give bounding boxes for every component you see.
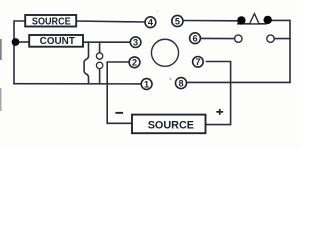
pin 8 bbox=[176, 78, 187, 89]
svg-text:4: 4 bbox=[148, 18, 154, 28]
switch S1 contact (bottom circle) bbox=[96, 62, 102, 68]
svg-text:2: 2 bbox=[132, 58, 137, 68]
wire: NC stationary contact to right rail bbox=[275, 38, 291, 40]
svg-text:6: 6 bbox=[192, 34, 197, 44]
wire: pin 6 to NO stationary contact bbox=[201, 37, 234, 39]
svg-text:8: 8 bbox=[178, 78, 183, 88]
wire: drop to switch top contact bbox=[99, 42, 101, 52]
pin 4 bbox=[145, 17, 156, 28]
socket outline (center circle) bbox=[151, 39, 178, 66]
wire: pin 5 to movable contact bbox=[184, 20, 238, 22]
scan noise speck bbox=[157, 11, 159, 13]
wire: pin 8 to right rail bbox=[187, 81, 290, 83]
wire: junction dot to COUNT box bbox=[16, 41, 30, 43]
pin 2 bbox=[129, 57, 140, 68]
scan noise speck bbox=[170, 78, 172, 80]
node: junction dot on left rail bbox=[12, 38, 20, 46]
wire: COUNT box to pin 3 bbox=[83, 41, 130, 43]
pin 7 bbox=[193, 57, 204, 68]
svg-text:5: 5 bbox=[175, 16, 180, 26]
switch S1 contact (top circle) bbox=[96, 53, 102, 59]
pin 1 bbox=[141, 79, 152, 90]
pin 5 bbox=[172, 15, 183, 26]
svg-text:3: 3 bbox=[133, 38, 138, 48]
scan artifact: left edge smudge upper bbox=[0, 39, 2, 60]
wire: contact bar (movable) bbox=[238, 23, 266, 25]
pin 6 bbox=[190, 33, 201, 44]
contact: stationary contact left (open circle) bbox=[235, 35, 242, 42]
source box (top) bbox=[25, 15, 76, 27]
wire: switch bottom contact to bottom rail bbox=[99, 69, 101, 84]
count box bbox=[29, 35, 83, 47]
wire: plus drop from source to pin 7 bbox=[206, 62, 231, 125]
svg-text:COUNT: COUNT bbox=[40, 36, 75, 47]
wire: right dot to right rail bbox=[272, 20, 290, 82]
wire: flexible jumper drop (S-jog) bbox=[84, 42, 88, 83]
contact: movable dot right bbox=[264, 16, 272, 24]
svg-text:SOURCE: SOURCE bbox=[148, 120, 194, 132]
polarity label: minus bbox=[115, 112, 123, 114]
svg-text:1: 1 bbox=[144, 79, 149, 89]
contact: stationary contact right (open circle) bbox=[267, 35, 274, 42]
scan artifact: left edge smudge lower bbox=[0, 88, 2, 111]
svg-text:SOURCE: SOURCE bbox=[32, 16, 71, 27]
wire: bottom rail to pin 1 bbox=[14, 83, 140, 85]
wire: left rail bbox=[14, 21, 25, 84]
svg-text:7: 7 bbox=[195, 57, 200, 67]
polarity label: plus bbox=[216, 109, 223, 115]
contact: actuator triangle bbox=[250, 14, 260, 24]
wire: pin 2 to minus drop bbox=[107, 62, 132, 123]
contact: movable dot left bbox=[237, 16, 245, 24]
wire: SOURCE box to pin 4 bbox=[76, 21, 144, 22]
pin 3 bbox=[130, 37, 141, 48]
source box (bottom) bbox=[132, 115, 206, 134]
